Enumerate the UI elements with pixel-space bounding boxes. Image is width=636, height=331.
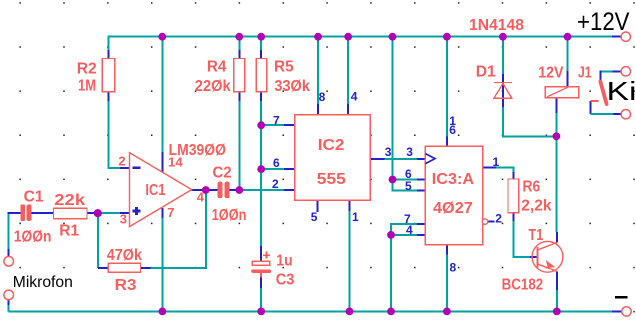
op-amp plus sign [133,207,141,215]
svg-text:5: 5 [405,179,412,193]
junction top rail IC2 pin8 [314,33,322,41]
pin lead C3 bottom [260,278,262,289]
wire R4 branch from rail [238,36,240,59]
pin lead T1 base [530,256,537,258]
wire IC2 pin6 row [261,168,284,170]
svg-text:2: 2 [118,153,125,168]
wire IC3 pin7 row [391,224,417,235]
pin lead R6 bottom [513,213,515,222]
pin lead +12V terminal [612,36,621,38]
svg-text:4: 4 [406,223,413,237]
svg-text:1ØØn: 1ØØn [212,207,247,224]
pin lead IC2 pin5 stub [317,200,319,212]
svg-text:R3: R3 [115,277,137,294]
svg-text:33Øk: 33Øk [274,78,310,95]
junction ground rail IC3 pins7/4 [387,308,395,316]
capacitor C2 [218,182,230,199]
wire R6 to T1 base [514,221,531,257]
wire R5 branch from rail [260,36,262,59]
wire IC2 pin1 to ground rail [349,211,351,311]
wire relay top from rail [567,36,569,71]
wire feedback node down to R3 [97,213,99,268]
junction node IC2 pin6 [257,165,265,173]
junction ground rail C3 [257,308,265,316]
pin lead T1 emitter [556,271,558,290]
junction top rail IC3 pin16 [443,33,451,41]
pin lead IC2 pin4 [347,104,349,115]
svg-text:2: 2 [272,177,279,191]
pin lead R1 right [87,212,98,214]
wire T1 emitter to ground rail [556,290,558,311]
pin lead IC3 pin2 stub [488,221,495,223]
pin lead IC3 pin4 [417,234,425,236]
pin lead C1 left [8,212,21,214]
pin lead C1 right [32,212,46,214]
wire D1 from rail [502,36,504,74]
pin lead IC2 pin3 out [370,158,385,160]
IC2 555 body [295,115,370,201]
svg-text:6: 6 [273,156,280,170]
svg-text:+12V: +12V [577,8,630,36]
svg-text:R5: R5 [274,58,294,75]
pin lead mic bottom [8,299,10,305]
pin lead IC2 pin6 [284,168,295,170]
wire R2 bottom to op-amp pin2 [108,92,129,168]
wire Ki switch top [601,70,613,72]
junction ground rail IC3 pin8 [443,308,451,316]
svg-text:8: 8 [450,260,457,274]
pin lead op-amp output pin4 [192,189,206,191]
svg-text:1: 1 [352,210,359,224]
wire relay bottom to node [555,113,557,136]
pin lead IC2 pin2 [284,189,295,191]
svg-text:1: 1 [493,155,500,169]
pin lead relay top [567,71,569,87]
resistor R3 [108,263,140,272]
resistor R4 [234,59,245,92]
terminal +12V [621,32,630,41]
wire mic bottom to ground rail [8,305,10,311]
pin lead IC3 pin1 out [483,167,496,169]
svg-text:7: 7 [167,205,174,220]
junction top rail D1 [499,33,507,41]
wire op-amp pin14 from rail [161,36,163,152]
junction ground rail T1 emitter [553,308,561,316]
junction ground rail IC2 pin1 [346,308,354,316]
svg-text:R1: R1 [59,222,79,239]
svg-text:555: 555 [317,171,346,188]
wire Ki bottom row [590,113,613,115]
pin lead op-amp pin14 [161,152,163,174]
svg-text:BC182: BC182 [502,277,544,294]
svg-text:1N4148: 1N4148 [469,17,524,34]
wire output node [206,189,218,191]
pin lead op-amp pin7 [161,208,163,218]
svg-text:R2: R2 [77,60,97,77]
svg-text:C1: C1 [24,188,44,205]
pin lead R5 bottom [260,92,262,101]
label minus terminal [615,296,628,298]
pin lead IC2 pin1 [349,200,351,211]
wire microphone top to C1 [8,213,10,250]
pin lead IC3 pin7 [417,223,425,225]
capacitor C3 electrolytic [251,252,271,278]
switch Ki blade [600,82,606,104]
wire IC2 pin4 from rail [347,36,349,104]
terminal ground right [622,307,631,316]
pin lead op-amp pin3 [120,212,130,214]
svg-text:8: 8 [319,90,326,104]
wire R2 top pin [107,50,109,59]
wire +12V top rail [108,36,612,38]
IC3 clock symbol [425,154,435,164]
junction node R1/pin3/R3 [94,209,102,217]
wire R1 to op-amp pin3 node [98,212,120,214]
wire bottom ground rail [9,310,612,312]
svg-text:4Ø27: 4Ø27 [433,200,473,217]
svg-text:1ØØn: 1ØØn [14,229,52,246]
wire IC3 pin6 row [393,179,418,181]
svg-text:12V: 12V [538,65,564,82]
wire C2 node to IC2 pin2 [239,189,284,191]
junction node C2/R4/IC2 pin2 [235,186,243,194]
wire op-amp pin7 to ground rail [161,218,163,311]
op-amp IC1 LM3900 [130,153,192,227]
pin lead T1 collector [556,232,558,242]
svg-text:R4: R4 [207,58,227,75]
pin lead IC3 pin16 [446,137,448,146]
svg-text:1M: 1M [78,77,96,94]
wire C3 bottom to ground rail [260,278,262,312]
capacitor C1 [20,204,31,221]
pin lead mic top [8,249,10,257]
pin lead op-amp pin2 [120,167,130,169]
pin lead R4 top [238,50,240,59]
junction node IC3 pins7/4 [387,231,395,239]
svg-text:7: 7 [273,114,280,128]
pin lead IC2 pin7 [284,124,295,126]
junction node IC2 pin7 [257,121,265,129]
resistor R5 [256,59,267,92]
pin lead Ki contact corner [589,101,591,114]
pin lead Ki bottom terminal [613,113,622,115]
svg-text:IC1: IC1 [145,182,165,199]
wire IC3 pins 7/4 to ground rail [390,235,392,312]
pin lead ground terminal right [612,310,622,312]
pin lead R5 top [260,50,262,59]
diode D1 [494,83,512,99]
pin lead IC3 pin5 [417,190,425,192]
wire node to transistor collector [556,136,558,232]
wire IC2 pin7 row [261,124,284,126]
junction top rail R2/pin14 [158,33,166,41]
pin lead R4 bottom [238,92,240,101]
wire IC3 J/K pins from rail [392,36,394,180]
pin lead relay bottom [555,98,557,113]
pin lead IC2 pin8 [317,104,319,115]
svg-text:IC3:A: IC3:A [432,171,475,188]
svg-text:3: 3 [406,145,413,159]
resistor R6 [508,179,519,213]
IC3 4027 body [425,146,482,245]
wire IC3 pin4 row [391,234,417,236]
svg-text:C3: C3 [276,271,295,288]
junction top rail R4 [235,33,243,41]
svg-text:Ki: Ki [607,76,636,106]
resistor R1 [54,208,88,218]
pin lead R3 right [141,267,151,269]
svg-text:2: 2 [495,212,502,226]
svg-text:22k: 22k [54,192,85,209]
pin lead R3 left [98,267,108,269]
junction top rail R5 [257,33,265,41]
svg-text:6: 6 [449,123,456,137]
junction top rail IC2 pin4 [344,33,352,41]
junction top rail relay [564,33,572,41]
wire IC3 pin8 to ground rail [446,255,448,312]
terminal Ki top [621,67,630,76]
pin lead Ki top terminal [613,70,622,72]
junction top rail IC3 J/K [389,33,397,41]
pin lead C2 right [230,189,240,191]
svg-text:C2: C2 [213,165,232,182]
resistor R2 [102,59,115,92]
wire 555 out to 4027 clock [385,158,417,160]
transistor T1 BC182 [532,241,563,272]
wire R3 right up to output node [150,190,206,268]
wire IC3 pin1 to R6 [496,168,514,172]
wire IC3 pin5 row [393,180,418,191]
svg-text:3: 3 [385,145,392,159]
terminal microphone bottom [4,290,14,300]
pin lead IC3 pin8 [446,245,448,255]
junction node op-amp output [202,186,210,194]
svg-text:14: 14 [168,155,183,170]
relay coil J1 [545,87,579,98]
svg-text:Mikrofon: Mikrofon [13,274,73,291]
wire R4 bottom to C2 node [238,92,240,190]
pin lead IC3 pin6 [417,179,425,181]
svg-text:3: 3 [120,211,127,226]
wire D1 anode to relay node [503,107,557,136]
pin lead IC3 pin3 clock [417,158,425,160]
junction ground rail op-amp pin7 [159,308,167,316]
svg-text:R6: R6 [523,178,541,195]
op-amp minus sign [133,167,141,170]
wire R5 bottom through 555 pins to C3 [260,92,262,246]
pin lead Ki blade pivot [600,70,602,82]
wire IC3 pin16 from rail [446,36,448,137]
junction node D1/relay/collector [553,132,561,140]
IC3 pin2 bubble [482,219,487,224]
terminal microphone top [4,257,14,267]
svg-text:IC2: IC2 [318,137,345,154]
svg-text:D1: D1 [476,64,496,81]
svg-text:2,2k: 2,2k [521,197,551,214]
junction node IC3 pins6/5 [389,176,397,184]
svg-text:1u: 1u [276,252,292,269]
svg-text:47Øk: 47Øk [107,247,142,264]
svg-text:T1: T1 [529,227,544,244]
wire C1 to R1 [45,212,54,214]
svg-text:J1: J1 [578,65,592,82]
svg-text:5: 5 [311,210,318,224]
wire IC2 pin8 from rail [317,36,319,104]
pin lead D1 through [502,74,504,107]
switch Ki fixed contact [590,100,598,102]
terminal Ki bottom [621,110,630,119]
svg-text:4: 4 [197,189,205,204]
pin lead R6 top [513,172,515,179]
wire R2 top branch [107,36,109,59]
svg-text:22Øk: 22Øk [195,78,231,95]
pin lead C3 top [260,246,262,261]
svg-text:4: 4 [351,90,358,104]
pin lead R2 bottom [107,92,109,101]
